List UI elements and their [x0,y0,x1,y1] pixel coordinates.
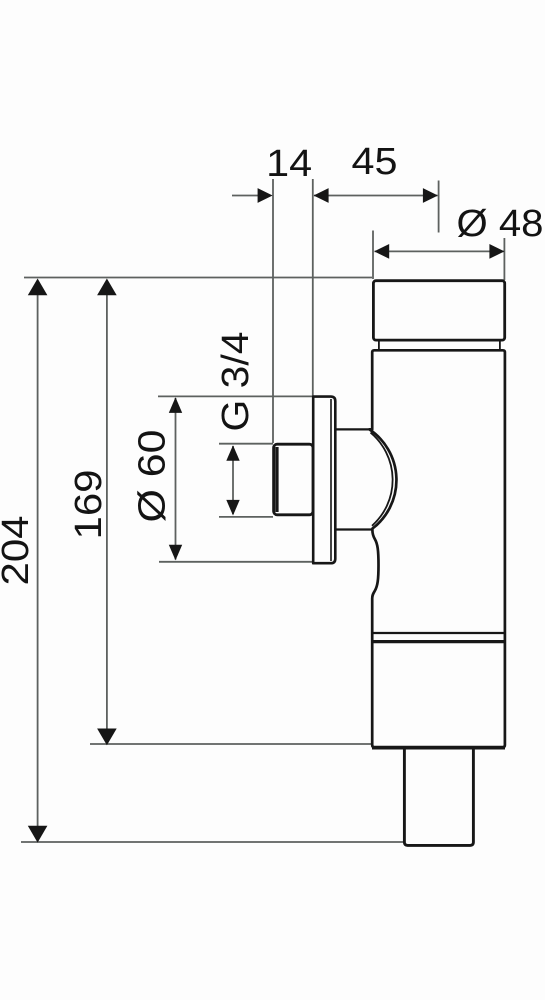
svg-text:169: 169 [68,470,110,540]
svg-text:204: 204 [0,516,37,586]
svg-text:14: 14 [266,143,312,185]
svg-text:45: 45 [352,141,398,183]
svg-text:Ø 48: Ø 48 [457,203,544,245]
svg-text:G 3/4: G 3/4 [215,332,257,432]
svg-text:Ø 60: Ø 60 [132,430,174,523]
